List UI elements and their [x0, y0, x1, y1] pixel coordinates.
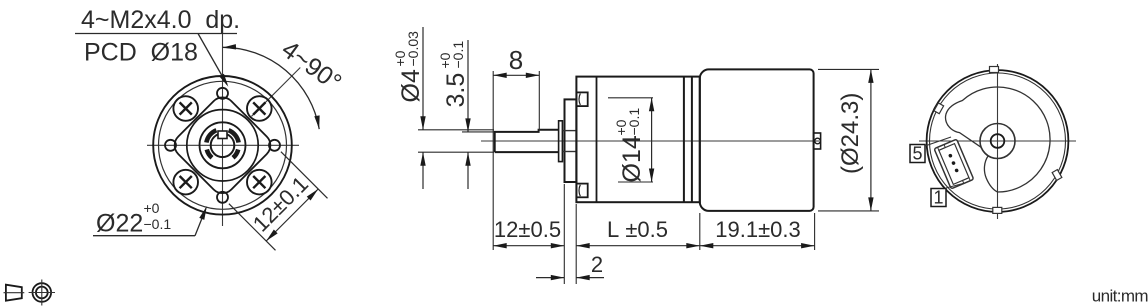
leader underline for M2 label [75, 33, 237, 35]
svg-text:−0.1: −0.1 [144, 216, 172, 232]
shaft lines through disc [562, 130, 576, 132]
svg-text:5: 5 [912, 144, 922, 164]
svg-text:4~M2x4.0 dp.: 4~M2x4.0 dp. [81, 6, 240, 34]
dim 12+-0.1 extension line from right hole [281, 152, 328, 199]
svg-text:19.1±0.3: 19.1±0.3 [715, 217, 800, 242]
wire horizontal centerline rear view [919, 140, 1076, 142]
dim dia14 line [651, 98, 653, 182]
svg-text:PCD Ø18: PCD Ø18 [84, 39, 198, 67]
dim 12+-0.1 dimension line [266, 189, 318, 241]
screw bottom-right [247, 170, 272, 195]
svg-text:2: 2 [591, 252, 603, 277]
wire vertical centerline rear view [997, 64, 999, 219]
E-clip upper-right wing [229, 130, 239, 142]
motor can outer circle (rear) [927, 70, 1069, 212]
crimp tab upper-left [934, 103, 944, 114]
dim dia24.3 extension lines [818, 68, 879, 70]
M2 hole top [217, 88, 228, 99]
svg-text:−0.1: −0.1 [626, 108, 642, 136]
screw bottom-left [173, 170, 198, 195]
dim 8 line [493, 74, 539, 76]
svg-text:3.5: 3.5 [442, 73, 470, 108]
svg-text:Ø4: Ø4 [397, 69, 425, 102]
dim dia24.3 line [870, 69, 872, 211]
svg-text:L ±0.5: L ±0.5 [607, 217, 668, 242]
svg-text:Ø22: Ø22 [96, 210, 143, 238]
bottom extension lines [563, 184, 565, 284]
svg-text:unit:mm: unit:mm [1092, 287, 1148, 306]
bearing ring circle dia 8 [200, 122, 246, 168]
E-clip upper-left wing [206, 130, 216, 142]
M2 hole right [269, 140, 280, 151]
end cap kidney outline [946, 87, 1051, 192]
shaft outline dia 4 [495, 130, 559, 152]
dim 19.1+-0.3 line [700, 245, 815, 247]
connector polarity tabs [938, 145, 946, 151]
svg-text:−0.03: −0.03 [405, 31, 421, 67]
wire vertical centerline front view [222, 30, 224, 226]
dim dia14 extension lines [608, 97, 653, 99]
gearbox rear seam 2 [691, 77, 693, 203]
gearbox rounded square plate [169, 92, 275, 198]
leader line to rim [195, 208, 206, 235]
dim 12+-0.1 extension line from bottom hole [229, 204, 276, 251]
dim 12+-0.5 line [493, 245, 564, 247]
REAR VIEW [910, 64, 1076, 219]
motor rear pip [815, 138, 821, 144]
third angle projection circle symbol [33, 283, 52, 302]
shaft washer / E-ring [559, 121, 563, 162]
crimp tab lower-right [1052, 170, 1062, 181]
connector body [934, 139, 974, 189]
shaft circle dia 4 [211, 134, 235, 158]
crimp tab bottom [993, 207, 1002, 213]
label dia14 tolerance [613, 108, 646, 183]
front pilot disc dia 14 [565, 99, 577, 182]
svg-text:+0: +0 [144, 200, 160, 216]
motor can rim circle (rear) [930, 73, 1066, 209]
M2 hole bottom [217, 192, 228, 203]
dim 2 tails [536, 277, 564, 279]
pin 1 label box [931, 189, 946, 207]
gearbox case body [576, 77, 699, 203]
svg-text:1: 1 [933, 188, 943, 208]
motor end cap outer circle (front view) [153, 76, 292, 215]
case screw head top (side) [576, 92, 587, 106]
label (dia24.3) [837, 93, 864, 174]
shaft end circle (rear) [991, 134, 1005, 148]
motor body (side) [700, 69, 814, 211]
SIDE VIEW [392, 27, 879, 284]
svg-text:Ø14: Ø14 [618, 135, 646, 182]
gearbox rim circle dia 22 [159, 81, 287, 209]
gearbox rear seam 1 [683, 77, 685, 203]
M2 hole left [165, 140, 176, 151]
dim 3.5 line [467, 40, 469, 132]
connector pins [948, 153, 953, 158]
motor rear bearing bump [814, 133, 821, 149]
E-clip lower-left foot [207, 150, 212, 158]
leader underline for dia22 [93, 235, 195, 237]
E-clip lower-right foot [233, 150, 238, 158]
pin 5 leader [925, 137, 951, 146]
boss circle dia 12 [187, 110, 258, 181]
wire 45deg centerline front view [252, 68, 301, 117]
crimp tab top [990, 67, 999, 73]
dim L+-0.5 line [576, 245, 700, 247]
angular dimension arc 4~90 [223, 47, 320, 129]
dim dia4: extension lines at shaft top/flat/bottom [418, 129, 494, 131]
screw top-right [247, 96, 272, 121]
svg-text:−0.1: −0.1 [450, 41, 466, 69]
svg-text:(Ø24.3): (Ø24.3) [837, 93, 864, 174]
third angle projection cone symbol [6, 285, 22, 301]
svg-text:8: 8 [509, 45, 523, 75]
leader line to top hole [198, 34, 227, 85]
svg-text:12±0.5: 12±0.5 [494, 217, 561, 242]
dim dia4 line [422, 27, 424, 130]
pin 5 label box [910, 145, 925, 163]
center boss circle [980, 124, 1015, 159]
shaft keyway notch [218, 131, 227, 139]
wire horizontal centerline front view [147, 144, 299, 146]
pin 1 leader [946, 184, 963, 189]
label 3.5 tolerance [437, 41, 470, 108]
gearbox internal seam [596, 77, 598, 203]
dim 8: extension lines [492, 71, 494, 250]
label dia4 tolerance [392, 31, 425, 103]
CORNER ITEMS [4, 280, 1148, 306]
wire horizontal centerline side view [481, 140, 819, 142]
screw top-left [173, 96, 198, 121]
case screw head bottom (side) [576, 184, 587, 198]
FRONT VIEW [75, 6, 347, 250]
